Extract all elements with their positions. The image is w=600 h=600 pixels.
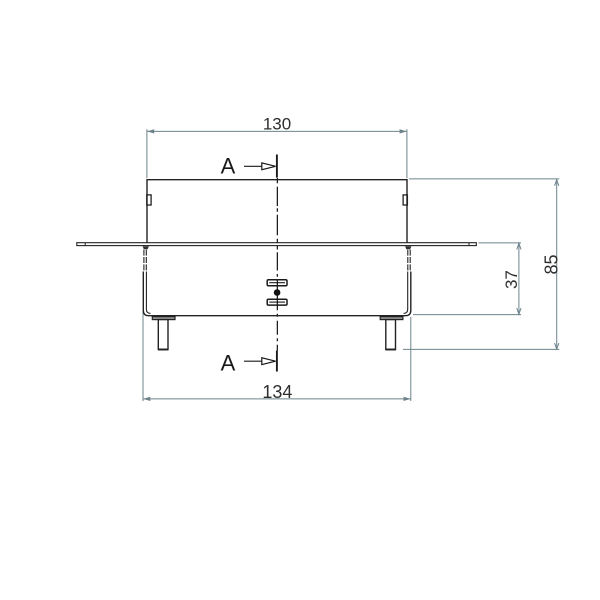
svg-text:130: 130: [263, 115, 291, 134]
svg-text:A: A: [221, 350, 236, 375]
svg-text:85: 85: [541, 254, 561, 274]
svg-text:A: A: [221, 154, 236, 179]
svg-text:134: 134: [262, 382, 292, 402]
svg-text:37: 37: [502, 270, 521, 289]
